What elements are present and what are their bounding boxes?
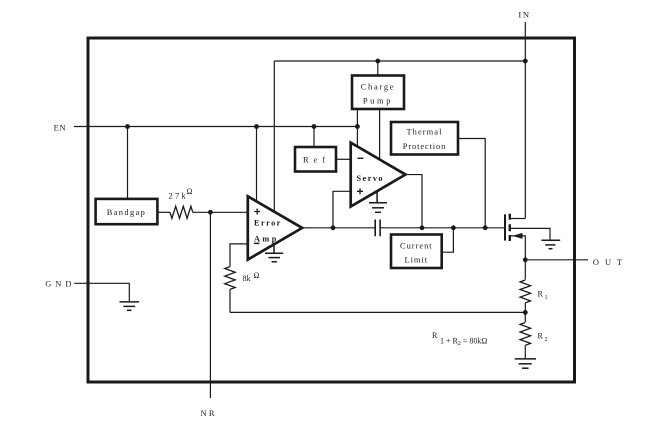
wire thermal protection output (458, 139, 485, 228)
svg-text:EN: EN (54, 124, 67, 133)
junction feedback node (523, 310, 528, 315)
svg-text:R: R (538, 290, 544, 299)
op-amp Error Amp (248, 196, 302, 259)
wire current limit connection (442, 228, 454, 252)
svg-text:1 + R2 = 80kΩ: 1 + R2 = 80kΩ (440, 337, 487, 348)
label 27k ohm (169, 187, 193, 201)
wire charge pump top (377, 61, 379, 76)
svg-text:IN: IN (518, 10, 530, 20)
svg-text:Ω: Ω (187, 187, 193, 196)
ground R2 (515, 359, 536, 368)
junction servo output tap (420, 225, 425, 230)
wire R2 to ground (524, 345, 526, 359)
svg-text:Amp: Amp (254, 235, 279, 244)
wire servo output (406, 175, 423, 228)
block Charge Pump (352, 76, 404, 110)
block Thermal Protection (391, 122, 458, 155)
resistor R2 (520, 323, 530, 346)
svg-text:Error: Error (254, 219, 282, 228)
resistor R1 (520, 280, 530, 303)
block Ref (295, 147, 336, 172)
wire ref to servo minus (336, 158, 351, 160)
wire error amp supply drop (273, 61, 275, 211)
junction IN / top rail (523, 59, 528, 64)
svg-text:Servo: Servo (357, 174, 385, 183)
junction top rail / charge pump (375, 59, 380, 64)
wire GND (74, 283, 129, 302)
wire gate line left (302, 227, 375, 229)
junction OUT node (523, 257, 528, 262)
resistor 27k zigzag (170, 206, 193, 218)
svg-text:Charge: Charge (361, 83, 396, 92)
junction EN / bandgap (125, 124, 130, 129)
wire EN drop to error amp plus (256, 127, 258, 209)
junction NR node (208, 210, 213, 215)
wire gate line right (380, 227, 505, 229)
label R2 (538, 332, 548, 344)
svg-text:OUT: OUT (593, 258, 628, 267)
junction EN / ref (312, 124, 317, 129)
ground servo (369, 192, 387, 212)
junction servo plus tap (331, 225, 336, 230)
ground error amp (265, 245, 283, 262)
wire EN to bandgap (127, 127, 129, 199)
wire top supply rail (274, 60, 525, 62)
junction thermal tap (483, 225, 488, 230)
wire servo plus input (333, 191, 351, 228)
svg-text:Thermal: Thermal (406, 128, 442, 137)
junction current limit tap (451, 225, 456, 230)
wire OUT to R1 (524, 260, 526, 280)
svg-text:Bandgap: Bandgap (107, 208, 147, 217)
svg-text:1: 1 (545, 295, 548, 301)
svg-text:Pump: Pump (363, 97, 393, 106)
junction EN / charge pump bottom (355, 124, 360, 129)
IC boundary box (88, 38, 575, 382)
wire R1 to feedback node (524, 303, 526, 313)
op-amp Servo (351, 143, 406, 207)
wire charge pump bottom right (379, 109, 381, 160)
resistor 8k zigzag (225, 267, 235, 290)
label R1+R2=80k equation (432, 331, 487, 347)
wire error amp minus input (230, 244, 248, 267)
block Bandgap (96, 199, 158, 224)
svg-text:R: R (538, 332, 544, 341)
svg-text:Ref: Ref (303, 156, 330, 165)
wire EN to ref (313, 127, 315, 148)
wire 8k to feedback line (229, 289, 231, 312)
svg-text:Ω: Ω (254, 271, 260, 280)
junction EN / error amp (254, 124, 259, 129)
wire IN rail vertical (524, 22, 526, 219)
wire feedback line (230, 311, 525, 313)
wire NR drop (209, 212, 211, 398)
label 8k ohm (243, 271, 260, 283)
svg-text:R: R (432, 331, 438, 340)
svg-text:27k: 27k (169, 191, 188, 201)
svg-text:Protection: Protection (403, 142, 446, 151)
svg-text:NR: NR (200, 409, 216, 418)
capacitor compensation (375, 220, 380, 237)
wire resistor to error amp (193, 211, 248, 213)
svg-text:Current: Current (400, 242, 433, 251)
transistor pass PMOS (505, 214, 550, 260)
wire charge pump bottom left (356, 109, 358, 146)
svg-text:2: 2 (545, 337, 548, 343)
ground GND pin (120, 302, 140, 310)
wire feedback node to R2 (524, 312, 526, 322)
svg-text:8k: 8k (243, 274, 251, 283)
svg-text:GND: GND (45, 279, 75, 288)
wire bandgap to resistor (157, 211, 170, 213)
ground mosfet bulk (542, 240, 561, 249)
svg-text:Limit: Limit (404, 256, 428, 265)
label R1 (538, 290, 548, 302)
wire OUT (525, 259, 588, 261)
wire EN rail (74, 126, 357, 128)
block Current Limit (391, 235, 442, 269)
